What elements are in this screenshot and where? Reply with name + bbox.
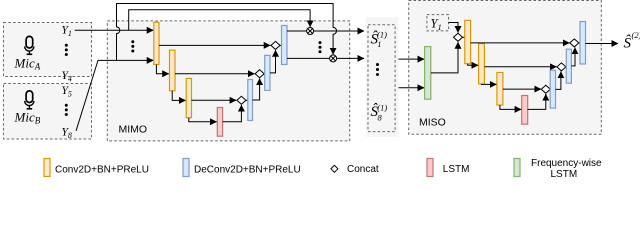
dots input	[131, 40, 134, 52]
miso conv bar 2	[479, 44, 485, 85]
wire mdeconv2 to md3	[571, 48, 575, 66]
svg-text:Frequency-wise: Frequency-wise	[531, 158, 602, 169]
svg-text:DeConv2D+BN+PReLU: DeConv2D+BN+PReLU	[194, 165, 301, 176]
dots micA	[65, 44, 68, 56]
wire d2 to deconv2	[263, 73, 266, 75]
lstm bar	[217, 108, 222, 137]
dots micB	[65, 104, 68, 116]
MISO box	[409, 1, 602, 135]
legend concat diamond	[331, 165, 338, 172]
wire bar3 to lstm	[189, 118, 217, 122]
wire mconv3 to mlstm	[500, 105, 521, 109]
wire md3 to mdeconv3	[579, 42, 580, 44]
svg-text:(1): (1)	[377, 29, 387, 39]
wire mlstm to md1	[528, 94, 546, 109]
miso lstm bar	[522, 96, 528, 125]
wire d1 to deconv1	[246, 99, 248, 101]
svg-text:Conv2D+BN+PReLU: Conv2D+BN+PReLU	[55, 165, 149, 176]
freq lstm bar	[425, 47, 431, 100]
dots masks	[319, 41, 322, 53]
mic icon B	[25, 91, 34, 109]
svg-text:LSTM: LSTM	[551, 169, 578, 180]
wire mask1	[287, 30, 307, 32]
wire deconv1 to concat2	[253, 79, 260, 101]
wire mdeconv1 to md2	[556, 72, 561, 90]
miso deconv bar 2	[566, 49, 571, 83]
svg-text:Concat: Concat	[347, 164, 379, 175]
wire green to d0	[431, 42, 458, 73]
wire y1 to d0	[449, 23, 458, 33]
wire sbox to green 2	[399, 87, 425, 89]
conv bar 2	[170, 50, 176, 91]
wire Y1 input	[75, 29, 154, 31]
deconv bar 2	[265, 55, 270, 90]
wire deconv2 to concat3	[270, 50, 276, 73]
wire bypass Y1 vertical	[129, 10, 310, 31]
legend deconv swatch	[183, 159, 189, 177]
concat d1	[237, 96, 246, 104]
mult x2	[330, 55, 337, 62]
wire bypass Y8 vertical with hop	[117, 4, 337, 61]
wire skip2	[175, 73, 254, 75]
wire mskip2	[484, 66, 556, 68]
wire skip3	[192, 99, 237, 101]
wire Y8 diagonal	[76, 60, 153, 131]
miso deconv bar 1	[550, 70, 555, 108]
deconv bar 3	[282, 26, 288, 65]
wire lstm to concat1	[223, 105, 242, 122]
conv bar 1	[154, 22, 159, 64]
wire mskip1	[471, 42, 570, 44]
miso deconv bar 3	[580, 22, 586, 65]
concat d2	[255, 70, 264, 78]
wire skip1	[159, 44, 270, 46]
Mic B box	[4, 84, 92, 140]
wire mconv1 to mconv2	[468, 64, 478, 66]
miso conv bar 3	[497, 73, 503, 106]
svg-text:MISO: MISO	[419, 117, 446, 129]
wire mskip3	[503, 88, 541, 90]
wire sbox to green 1	[399, 58, 425, 60]
miso conv bar 1	[465, 20, 471, 63]
wire bar2 to bar3	[172, 91, 185, 101]
svg-text:Ŝ: Ŝ	[624, 35, 632, 52]
wire d0 to conv1	[463, 36, 465, 38]
Y1 mini box	[427, 15, 449, 31]
concat md1	[541, 85, 550, 93]
wire d3 to deconv3	[280, 44, 282, 46]
conv bar 3	[186, 78, 191, 117]
legend conv swatch	[44, 159, 50, 177]
Mic A box	[4, 23, 92, 77]
wire md1 to mdeconv1	[549, 88, 551, 90]
wire mconv2 to mconv3	[482, 83, 497, 85]
svg-text:(2): (2)	[632, 30, 640, 40]
concat d0	[454, 33, 463, 41]
S1 output box	[366, 17, 399, 137]
mic icon A	[25, 36, 34, 54]
wire md2 to mdeconv2	[565, 66, 567, 68]
concat md2	[557, 63, 566, 71]
concat d3	[271, 41, 280, 49]
legend freq swatch	[514, 159, 520, 177]
mult x1	[307, 28, 314, 35]
concat md3	[570, 39, 579, 47]
svg-text:1: 1	[377, 39, 381, 49]
wire s8 out	[337, 57, 364, 59]
svg-text:LSTM: LSTM	[443, 164, 470, 175]
svg-text:(1): (1)	[377, 103, 387, 113]
wire s1 out	[314, 30, 364, 32]
dots outbox	[376, 63, 379, 76]
MIMO box	[107, 21, 349, 141]
wire bar1 to bar2	[156, 65, 168, 74]
deconv bar 1	[248, 80, 253, 121]
legend lstm swatch	[427, 159, 433, 177]
wire s2 out	[586, 43, 619, 45]
svg-text:MIMO: MIMO	[119, 124, 148, 136]
wire mask8	[287, 57, 330, 59]
